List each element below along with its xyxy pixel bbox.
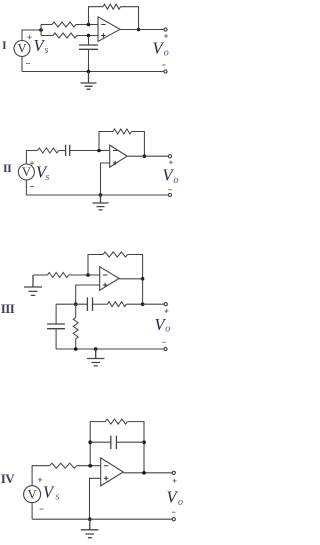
node inverting input (circuit II) xyxy=(97,149,101,153)
resistor feedback (circuit I) xyxy=(103,4,121,9)
op-amp (circuit III) xyxy=(100,267,119,291)
wire feedback to output (circuit III) xyxy=(128,255,143,279)
output terminal - (circuit II) xyxy=(168,193,171,196)
wire capacitor stub top (circuit I) xyxy=(88,36,90,46)
wire to lower resistor (circuit I) xyxy=(41,35,53,37)
capacitor series lower row (circuit III) xyxy=(87,297,92,311)
node resistor bottom junction (circuit III) xyxy=(74,347,78,351)
svg-text:o: o xyxy=(165,324,170,335)
wire lower row middle (circuit III) xyxy=(93,303,108,305)
wire capacitor to inverting input (circuit II) xyxy=(70,150,110,152)
node ground junction (circuit III) xyxy=(94,347,98,351)
wire resistor branch stub bottom (circuit III) xyxy=(75,339,77,349)
wire left branch down (circuit III) xyxy=(55,304,57,324)
svg-text:s: s xyxy=(46,172,50,183)
node feedback cap left junction (circuit IV) xyxy=(88,440,92,444)
output terminal - (circuit III) xyxy=(164,347,167,350)
svg-text:V: V xyxy=(43,483,55,502)
wire bottom rail (circuit IV) xyxy=(32,518,172,520)
wire source top to split node (circuit I) xyxy=(22,30,41,41)
op-amp (circuit II) xyxy=(110,145,127,167)
resistor feedback (circuit IV) xyxy=(105,419,127,424)
source + polarity mark (circuit IV) xyxy=(38,478,42,482)
node RC top junction (circuit III) xyxy=(74,302,78,306)
ground (circuit IV) xyxy=(81,519,99,538)
wire lower row to terminal (circuit III) xyxy=(126,303,164,305)
output terminal - (circuit IV) xyxy=(172,518,175,521)
output terminal + (circuit I) xyxy=(164,28,167,31)
node ground junction (circuit II) xyxy=(99,193,103,197)
svg-text:o: o xyxy=(178,497,183,508)
resistor lower input (circuit I) xyxy=(53,33,77,38)
label Vo (circuit IV) xyxy=(167,488,184,509)
wire input ground to resistor (circuit III) xyxy=(33,274,47,276)
source + polarity mark (circuit I) xyxy=(27,35,31,39)
output terminal - (circuit I) xyxy=(164,70,167,73)
wire resistor to capacitor (circuit II) xyxy=(59,150,66,152)
wire op-amp output to terminal (circuit IV) xyxy=(123,472,172,474)
output + mark (circuit I) xyxy=(164,34,168,38)
wire op-amp output to terminal (circuit II) xyxy=(127,155,168,157)
svg-text:o: o xyxy=(173,175,178,186)
wire split vertical (circuit I) xyxy=(40,25,42,36)
resistor input (circuit III) xyxy=(47,273,68,278)
resistor upper input (circuit I) xyxy=(52,22,76,27)
wire feedback riser left (circuit III) xyxy=(88,255,103,276)
wire to upper resistor (circuit I) xyxy=(41,24,52,26)
wire non-inverting input down (circuit III) xyxy=(76,285,100,304)
node output junction (circuit IV) xyxy=(142,471,146,475)
node ground junction (circuit I) xyxy=(87,70,91,74)
wire feedback cap branch right (circuit IV) xyxy=(116,441,144,443)
resistor shunt branch (circuit III) xyxy=(73,318,78,339)
wire resistor to inverting input (circuit III) xyxy=(69,274,100,276)
node output junction (circuit I) xyxy=(137,28,141,32)
node output junction (circuit III) xyxy=(141,277,145,281)
resistor series input (circuit IV) xyxy=(50,463,77,468)
svg-text:IV: IV xyxy=(1,471,15,486)
wire resistor to inverting input (circuit IV) xyxy=(76,465,100,467)
node feedback cap right junction (circuit IV) xyxy=(142,440,146,444)
source - polarity mark (circuit IV) xyxy=(40,508,44,510)
resistor feedback (circuit II) xyxy=(113,129,132,134)
label Vo (circuit III) xyxy=(155,315,171,335)
node inverting input (circuit I) xyxy=(87,23,91,27)
output terminal + (circuit IV) xyxy=(172,471,175,474)
svg-text:I: I xyxy=(2,38,7,52)
svg-text:s: s xyxy=(56,492,60,503)
node non-inverting input (circuit I) xyxy=(87,34,91,38)
ground (circuit I) xyxy=(81,72,97,90)
wire lower resistor to non-inverting input (circuit I) xyxy=(77,35,98,37)
wire feedback riser left (circuit II) xyxy=(99,132,113,151)
resistor lower row (circuit III) xyxy=(107,302,126,307)
svg-text:V: V xyxy=(28,487,37,501)
op-amp (circuit IV) xyxy=(101,458,124,486)
output terminal + (circuit II) xyxy=(168,155,171,158)
source - polarity mark (circuit II) xyxy=(30,186,34,188)
resistor feedback (circuit III) xyxy=(103,252,128,257)
svg-text:II: II xyxy=(3,161,12,175)
source + polarity mark (circuit II) xyxy=(30,161,34,165)
svg-text:V: V xyxy=(17,42,26,56)
op-amp (circuit I) xyxy=(98,17,120,42)
wire source bottom (circuit II) xyxy=(25,181,27,196)
resistor series input (circuit II) xyxy=(38,148,59,153)
output + mark (circuit IV) xyxy=(173,479,177,483)
capacitor shunt left branch (circuit III) xyxy=(47,324,65,329)
wire feedback to output (circuit II) xyxy=(132,132,145,157)
wire feedback to output (circuit I) xyxy=(121,7,139,30)
node inverting input (circuit III) xyxy=(86,273,90,277)
output + mark (circuit III) xyxy=(165,309,169,313)
node inverting input (circuit IV) xyxy=(88,464,92,468)
wire non-inverting input to rail (circuit IV) xyxy=(90,478,101,519)
wire op-amp output to terminal (circuit I) xyxy=(120,29,164,31)
capacitor series input (circuit II) xyxy=(66,145,70,156)
input ground (circuit III) xyxy=(24,275,42,295)
wire feedback riser left (circuit I) xyxy=(89,7,104,25)
label Vo (circuit I) xyxy=(153,39,169,59)
wire source bottom (circuit I) xyxy=(21,57,23,72)
svg-text:V: V xyxy=(22,165,31,179)
wire resistor branch stub top (circuit III) xyxy=(75,304,77,317)
wire lower row left (circuit III) xyxy=(56,303,87,305)
node ground junction (circuit IV) xyxy=(88,517,92,521)
wire upper resistor to inverting input (circuit I) xyxy=(76,24,98,26)
voltage source Vs (circuit II) xyxy=(18,164,34,180)
capacitor feedback (circuit IV) xyxy=(111,436,117,449)
wire left branch to rail (circuit III) xyxy=(55,329,57,349)
svg-text:o: o xyxy=(164,48,169,59)
node output junction (circuit II) xyxy=(143,154,147,158)
source - polarity mark (circuit I) xyxy=(26,63,30,65)
node lower row output junction (circuit III) xyxy=(141,302,145,306)
wire non-inverting input to rail (circuit II) xyxy=(101,163,110,195)
wire source top (circuit IV) xyxy=(32,466,50,486)
wire feedback cap branch left (circuit IV) xyxy=(90,441,111,443)
wire source top (circuit II) xyxy=(26,151,37,165)
wire capacitor to ground rail (circuit I) xyxy=(88,49,90,71)
wire bottom rail (circuit III) xyxy=(56,348,164,350)
wire source bottom (circuit IV) xyxy=(31,503,33,520)
output - mark (circuit III) xyxy=(162,341,166,343)
wire output down to lower row (circuit III) xyxy=(142,279,144,304)
node split junction (circuit I) xyxy=(39,28,43,32)
ground (circuit II) xyxy=(93,195,109,210)
voltage source Vs (circuit I) xyxy=(14,41,30,57)
label Vs (circuit I) xyxy=(34,36,49,56)
wire bottom rail (circuit II) xyxy=(26,194,168,196)
output - mark (circuit I) xyxy=(162,64,166,66)
output - mark (circuit IV) xyxy=(172,511,176,513)
label Vo (circuit II) xyxy=(163,166,179,186)
label Vs (circuit II) xyxy=(36,163,50,184)
output + mark (circuit II) xyxy=(169,160,173,164)
wire feedback riser left (circuit IV) xyxy=(90,422,105,466)
output terminal + (circuit III) xyxy=(164,303,167,306)
svg-text:V: V xyxy=(167,488,179,507)
svg-text:III: III xyxy=(1,301,15,316)
svg-text:V: V xyxy=(153,39,165,58)
wire bottom rail (circuit I) xyxy=(22,71,164,73)
wire op-amp output (circuit III) xyxy=(119,278,143,280)
label Vs (circuit IV) xyxy=(43,483,60,503)
output - mark (circuit II) xyxy=(168,189,172,191)
wire feedback top right riser (circuit IV) xyxy=(127,422,144,473)
voltage source Vs (circuit IV) xyxy=(24,486,41,503)
capacitor (circuit I) xyxy=(79,45,98,49)
ground (circuit III) xyxy=(87,349,105,366)
svg-text:s: s xyxy=(45,45,49,56)
